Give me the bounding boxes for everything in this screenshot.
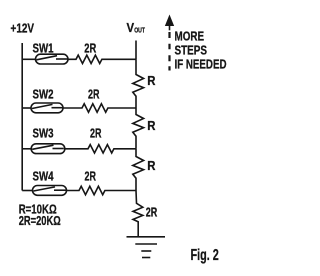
resistor 2R row2 <box>63 104 136 112</box>
svg-text:2R=20KΩ: 2R=20KΩ <box>19 213 61 228</box>
resistor 2R row3 value label <box>90 125 102 140</box>
wire VOUT stub <box>135 41 137 60</box>
svg-text:R: R <box>147 118 156 133</box>
svg-text:Fig. 2: Fig. 2 <box>191 247 219 264</box>
value note 2R=20K ohm <box>19 213 61 228</box>
resistor R ladder 1 <box>133 59 144 108</box>
svg-text:2R: 2R <box>146 205 158 220</box>
caption Fig. 2 <box>191 247 219 264</box>
svg-text:2R: 2R <box>88 86 100 101</box>
svg-text:MORE: MORE <box>175 28 205 43</box>
resistor 2R ladder bottom <box>133 191 143 237</box>
svg-text:2R: 2R <box>90 125 102 140</box>
switch SW1 <box>36 54 69 64</box>
switch SW1 label <box>33 41 54 56</box>
wire row2 left <box>22 107 31 109</box>
resistor 2R row1 value label <box>84 41 96 56</box>
switch SW2 label <box>33 86 54 101</box>
resistor R ladder 2 value label <box>147 118 156 133</box>
resistor 2R row1 <box>68 55 136 63</box>
resistor 2R row4 value label <box>85 169 97 184</box>
wire row1 left <box>22 58 35 60</box>
resistor R ladder 2 <box>133 108 144 149</box>
resistor 2R row3 <box>65 145 136 153</box>
svg-text:+12V: +12V <box>11 21 35 36</box>
svg-text:OUT: OUT <box>134 26 145 35</box>
resistor 2R row4 <box>67 186 137 194</box>
resistor R ladder 3 value label <box>147 158 156 173</box>
svg-text:SW1: SW1 <box>33 41 54 56</box>
svg-text:SW4: SW4 <box>33 169 55 184</box>
svg-text:STEPS: STEPS <box>175 43 208 58</box>
switch SW2 <box>31 103 63 113</box>
svg-text:R: R <box>147 158 156 173</box>
annotation text MORE STEPS IF NEEDED <box>175 28 227 71</box>
svg-text:SW2: SW2 <box>33 86 54 101</box>
resistor 2R row2 value label <box>88 86 100 101</box>
resistor R ladder 1 value label <box>147 73 156 88</box>
resistor R ladder 3 <box>133 149 144 191</box>
wire row3 left <box>22 148 31 150</box>
switch SW3 <box>31 144 65 154</box>
wire row4 left <box>22 190 32 192</box>
annotation arrow (more steps) <box>166 16 174 71</box>
svg-text:R: R <box>147 73 156 88</box>
node VOUT label <box>127 20 146 35</box>
switch SW4 <box>33 186 67 196</box>
resistor 2R ladder bottom value label <box>146 205 158 220</box>
value note R=10K ohm <box>19 201 57 216</box>
svg-text:2R: 2R <box>85 169 97 184</box>
ground <box>127 237 166 258</box>
svg-text:2R: 2R <box>84 41 96 56</box>
svg-text:IF NEEDED: IF NEEDED <box>175 57 227 72</box>
switch SW3 label <box>33 125 54 140</box>
power +12V label <box>11 21 35 36</box>
switch SW4 label <box>33 169 55 184</box>
svg-text:SW3: SW3 <box>33 125 54 140</box>
wire left supply bus <box>21 43 23 191</box>
